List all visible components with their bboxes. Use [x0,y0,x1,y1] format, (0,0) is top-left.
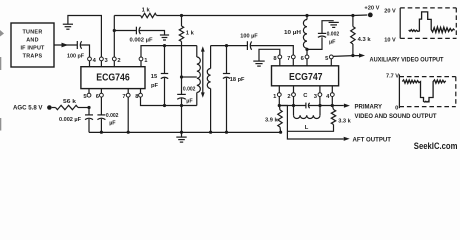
U2 pins 1,2,3,4 (bottom) [273,86,334,100]
wire pin2 riser [113,16,115,58]
node rail/3.9k junction [279,131,282,134]
inductor L (quadrature coil) [294,106,321,132]
svg-text:AND: AND [26,38,39,44]
transformer T1 primary winding [197,46,201,106]
resistor 3.3 k [287,106,351,132]
waveform scope box 2 (primary video, 7.7V/0) [386,74,456,112]
node tap junction [180,75,183,78]
svg-text:10 V: 10 V [384,38,396,44]
svg-text:100 µF: 100 µF [240,34,258,40]
node aux/4.3k junction [351,54,354,57]
node AGC/pin5 junction [87,106,90,109]
wire 1k-vert down branch [181,46,183,95]
resistor 1k (vertical) [179,16,194,46]
svg-text:PRIMARY: PRIMARY [355,103,383,110]
node pin2/rail junction [113,29,116,32]
svg-text:ECG746: ECG746 [96,73,130,84]
capacitor 15 pF [151,46,168,106]
svg-text:0.002: 0.002 [183,87,196,93]
svg-text:1: 1 [144,58,148,64]
capacitor 100 uF (coupling) [240,34,293,56]
svg-text:20 V: 20 V [384,9,396,15]
capacitor 0.002 uF (top left bypass) [114,27,164,44]
wire transformer tap [182,76,197,78]
svg-text:4.3 k: 4.3 k [358,37,372,43]
svg-text:7: 7 [287,56,290,62]
waveform scope box 1 (auxiliary video, 20V/10V) [384,8,456,44]
capacitor 0.002 uF (U2 pin6 bypass) [307,21,339,50]
svg-text:4: 4 [93,58,97,64]
capacitor C (quadrature) [303,93,309,109]
wire primary video output [332,103,436,120]
capacitor 0.002 uF (pin6 bypass) [97,97,118,132]
svg-text:2: 2 [287,94,290,100]
svg-text:8: 8 [273,56,277,62]
svg-text:ECG747: ECG747 [289,72,323,83]
U2 pins 8,7,6,5 (top) [273,55,333,66]
svg-text:2: 2 [117,58,120,64]
node 10uH/pin6 junction [305,48,308,51]
svg-text:VIDEO AND SOUND OUTPUT: VIDEO AND SOUND OUTPUT [355,113,437,120]
ground (U2 pin 8) [253,61,264,66]
svg-text:100 pF: 100 pF [67,53,84,59]
svg-text:TRAPS: TRAPS [23,54,43,60]
svg-text:1: 1 [273,94,277,100]
resistor 56 k [52,99,89,110]
svg-text:+20 V: +20 V [364,6,379,12]
svg-text:µF: µF [329,40,336,46]
U1 pins 5,6,7,8 (bottom) [83,89,142,100]
ground (0.002 uF U2) [329,22,339,27]
svg-text:7.7 V: 7.7 V [386,74,399,80]
svg-text:0.002: 0.002 [327,31,340,37]
wire W2 (U2 bottom bus) [279,96,332,105]
node W2 pin2 [292,104,295,107]
ground (after 0.002 uF) [160,35,169,40]
svg-text:15: 15 [151,74,158,80]
capacitor 100 pF (series input) [67,41,90,59]
svg-text:SeekIC.com: SeekIC.com [414,141,458,151]
wire pin3 to ground [68,16,102,58]
node W1/15pF junction [163,104,166,107]
svg-text:7: 7 [122,94,125,100]
wire line A (pin1 to transformer primary) [141,46,197,58]
scan artifact marks (left edge) [0,30,4,131]
svg-text:L: L [305,125,309,131]
wire AFT output [279,106,391,144]
node rail/10uH junction [305,14,308,17]
svg-text:1 k: 1 k [142,8,151,14]
wire ground rail [89,131,281,133]
node rail/18pF junction [225,131,228,134]
resistor 4.3 k [351,16,372,56]
ground (main rail) [176,132,186,142]
node lineB/18pF junction [225,44,228,47]
wire tuner output with arrow [54,43,77,48]
svg-text:4: 4 [326,94,330,100]
node rail/cap6 junction [100,131,103,134]
transformer T1 secondary winding [207,46,210,133]
tuner/IF input block [11,23,54,67]
node rail/pin7 junction [127,131,130,134]
node lineA/15pF junction [163,44,166,47]
wire W1 (pin8 / caps bottoms) [141,97,197,106]
svg-text:0.002 µF: 0.002 µF [59,117,82,123]
AGC input terminal [13,105,52,112]
wire line B (secondary top) [211,45,248,47]
svg-text:µF: µF [186,99,193,105]
capacitor 0.002 uF (pin5 bypass) [59,108,93,133]
ground (top left) [63,24,73,29]
resistor 1k (horizontal, top rail) [114,8,353,18]
svg-text:AGC 5.8 V: AGC 5.8 V [13,105,43,112]
svg-text:10 µH: 10 µH [284,30,301,36]
svg-text:1 k: 1 k [186,30,195,36]
transformer T1 tuning slug arrow [201,46,205,97]
svg-text:0.002 µF: 0.002 µF [130,38,154,44]
svg-text:AUXILIARY VIDEO OUTPUT: AUXILIARY VIDEO OUTPUT [370,57,444,64]
capacitor 18 pF [223,46,245,133]
svg-text:56 k: 56 k [63,99,77,105]
U1 pins 4,3,2,1 (top) [88,57,149,67]
inductor 10 uH [284,16,307,56]
op-amp/IC U2 ECG747 box [272,66,339,86]
svg-text:0: 0 [395,106,398,112]
svg-text:3.3 k: 3.3 k [338,119,351,125]
svg-text:TUNER: TUNER [22,30,42,36]
wire pin8 ground hook [259,49,280,61]
node rail/1k-vert junction [180,14,183,17]
node rail/secondary junction [209,131,212,134]
node rail/0.002 junction [180,131,183,134]
+20 V supply terminal [353,6,380,18]
node rail/4.3k junction [351,14,354,17]
svg-text:5: 5 [325,56,329,62]
svg-text:3.9 k: 3.9 k [265,118,278,124]
svg-text:6: 6 [301,56,305,62]
svg-text:18 pF: 18 pF [230,77,245,83]
svg-text:0.002: 0.002 [106,113,119,119]
capacitor 0.002 uF (primary bottom) [177,87,195,133]
wire pin5 auxiliary output [333,53,444,63]
svg-text:pF: pF [151,83,159,89]
svg-text:IF INPUT: IF INPUT [20,46,45,52]
node W1/0.002 junction [180,104,183,107]
resistor 3.9 k [265,106,282,132]
svg-text:AFT OUTPUT: AFT OUTPUT [353,136,392,143]
wire pin7 to ground rail [127,97,129,132]
node W2 pin3 [318,104,321,107]
op-amp/IC U1 ECG746 box [81,67,145,89]
svg-text:3: 3 [105,58,109,64]
svg-text:3: 3 [314,94,318,100]
svg-text:µF: µF [109,121,116,127]
node W2 pin4 [331,104,334,107]
svg-text:C: C [303,93,308,99]
node W2 pin1 [278,104,281,107]
